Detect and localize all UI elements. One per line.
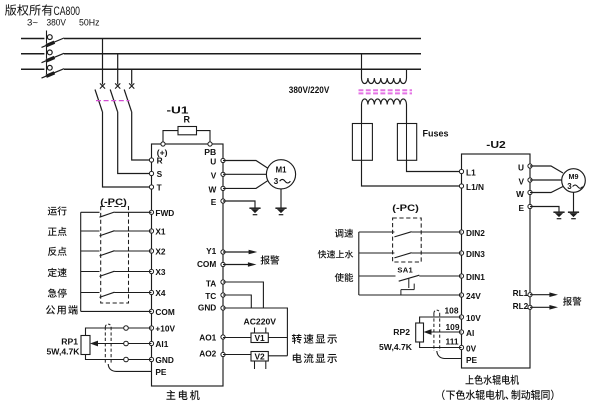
switch X2 (反点)	[81, 251, 152, 256]
terminal Y1 (U1 right)	[206, 246, 225, 256]
label 快速上水	[318, 250, 354, 258]
svg-text:U: U	[210, 157, 216, 167]
svg-text:Y1: Y1	[206, 246, 217, 256]
wire AI1 wiper	[97, 343, 152, 345]
transformer isolation (magenta)	[359, 90, 413, 93]
svg-text:10V: 10V	[466, 313, 481, 323]
terminal FWD (U1 left)	[149, 208, 174, 218]
terminal 24V (U2 left)	[459, 291, 481, 301]
svg-text:5W,4.7K: 5W,4.7K	[379, 342, 413, 352]
svg-text:S: S	[157, 169, 163, 179]
switch DIN2 (调速)	[359, 232, 462, 237]
svg-text:PE: PE	[466, 355, 478, 365]
terminal X4 (U1 left)	[149, 288, 166, 298]
svg-text:380V/220V: 380V/220V	[289, 85, 330, 95]
terminal U (U2 right)	[518, 162, 532, 172]
wire TA	[223, 282, 263, 308]
svg-text:DIN3: DIN3	[466, 249, 485, 259]
terminal 10V (U2 left)	[459, 313, 481, 323]
svg-text:X3: X3	[155, 267, 166, 277]
svg-text:T: T	[157, 183, 162, 193]
switch X4 (急停)	[81, 292, 152, 297]
junction circle GND	[124, 357, 129, 362]
wire U1-U to M1	[223, 161, 268, 169]
wire 24V	[359, 294, 462, 296]
wire (+) to resistor R	[163, 131, 178, 144]
terminal 0V (U2 left)	[459, 344, 476, 354]
svg-text:COM: COM	[197, 259, 216, 269]
cable shield (RP1)	[105, 324, 111, 364]
terminal E (U2 right)	[518, 203, 532, 213]
label 运行	[48, 206, 67, 215]
svg-text:DIN1: DIN1	[466, 272, 485, 282]
meter V1	[251, 333, 268, 343]
wire M1 to ground	[280, 189, 282, 208]
terminal E (U1 right)	[211, 197, 225, 207]
junction circle AI1	[124, 341, 129, 346]
switch X3 (定速)	[81, 271, 152, 276]
potentiometer RP2	[379, 323, 423, 352]
wire FU2 to L1	[407, 160, 462, 171]
cable shield (RP2)	[434, 310, 440, 351]
resistor R	[178, 115, 197, 135]
wire V2 to supply	[268, 355, 287, 357]
svg-text:L1: L1	[466, 168, 476, 178]
svg-text:E: E	[518, 203, 524, 213]
terminal COM (U1 left)	[149, 307, 174, 317]
terminal DIN3 (U2 left)	[459, 249, 485, 259]
terminal TC (U1 right)	[205, 291, 225, 301]
label 报警 (U1)	[261, 255, 280, 264]
svg-text:(-PC): (-PC)	[100, 197, 127, 207]
svg-text:3: 3	[567, 182, 572, 191]
svg-text:SA1: SA1	[397, 266, 413, 275]
svg-text:3~: 3~	[27, 18, 38, 28]
svg-text:W: W	[208, 185, 216, 195]
label 电流显示	[293, 353, 337, 363]
terminal R (U1 left)	[149, 156, 162, 166]
terminal AO1 (U1 right)	[199, 333, 225, 343]
svg-text:R: R	[157, 156, 163, 166]
svg-text:AO1: AO1	[199, 333, 216, 343]
title 版权所有	[5, 4, 53, 15]
label 反点	[48, 247, 67, 256]
svg-text:TA: TA	[206, 278, 216, 288]
terminal V (U2 right)	[518, 176, 532, 186]
alarm arrow RL1	[530, 292, 558, 297]
motor M9	[562, 169, 586, 193]
terminal W (U1 right)	[208, 185, 225, 195]
terminal (+)	[157, 142, 168, 158]
terminal L1 (U2 left)	[459, 168, 476, 178]
wire COM (公用端)	[81, 310, 152, 312]
junction circle +10V	[124, 326, 129, 331]
terminal +10V (U1 left)	[149, 324, 175, 334]
svg-text:-U2: -U2	[486, 140, 506, 151]
svg-text:24V: 24V	[466, 291, 481, 301]
ground (M9)	[568, 212, 579, 219]
wire U2-U to M9	[530, 166, 563, 173]
terminal S (U1 left)	[149, 169, 162, 179]
wire U1-V to M1	[223, 173, 267, 175]
label 定速	[48, 268, 67, 277]
label 主电机	[166, 390, 199, 400]
svg-text:111: 111	[446, 337, 459, 347]
wire U1-W to M1	[223, 181, 268, 189]
ground (M1)	[275, 208, 286, 215]
wire common bus (left -PC)	[80, 212, 82, 311]
svg-text:RP1: RP1	[61, 337, 78, 347]
wire AO2 to V2	[223, 354, 251, 356]
switch DIN3 (快速上水)	[359, 253, 462, 258]
terminal L1/N (U2 left)	[459, 182, 484, 192]
wire KM pole1 to T	[103, 112, 152, 188]
wire GND to meters	[223, 308, 287, 356]
svg-text:GND: GND	[198, 303, 216, 313]
terminal RL1 (U2 right)	[513, 288, 532, 298]
terminal DIN2 (U2 left)	[459, 228, 485, 238]
wire common bus (right -PC)	[358, 232, 360, 295]
svg-text:PE: PE	[155, 367, 167, 377]
inverter U2 box	[462, 154, 531, 368]
svg-text:X4: X4	[155, 288, 166, 298]
svg-text:COM: COM	[155, 307, 174, 317]
terminal U (U1 right)	[210, 157, 225, 167]
label 正点	[48, 227, 67, 236]
transformer T1 primary	[362, 54, 407, 84]
svg-text:DIN2: DIN2	[466, 228, 485, 238]
terminal DIN1 (U2 left)	[459, 272, 485, 282]
terminal X1 (U1 left)	[149, 227, 166, 237]
wire AO1 to V1	[223, 337, 251, 339]
svg-text:U: U	[518, 162, 524, 172]
ground (U1 E)	[249, 208, 260, 215]
meter V1 supply stubs	[254, 328, 256, 334]
wire KM pole3 to R	[132, 112, 152, 161]
svg-text:FWD: FWD	[155, 208, 174, 218]
terminal PB	[204, 142, 216, 157]
fuse FU1	[352, 124, 372, 161]
terminal AI1 (U1 left)	[149, 339, 168, 349]
terminal AI (U2 left)	[459, 328, 474, 338]
svg-text:V2: V2	[254, 352, 265, 362]
svg-text:108: 108	[445, 306, 459, 316]
contactor KM mechanical link	[96, 100, 130, 102]
wire U1-E to ground	[223, 201, 255, 208]
wire TC	[223, 295, 251, 308]
svg-text:3: 3	[274, 176, 279, 186]
svg-text:X1: X1	[155, 227, 166, 237]
label 报警 (U2)	[563, 297, 581, 306]
terminal X3 (U1 left)	[149, 267, 166, 277]
contactor KM pole 2	[110, 54, 120, 112]
alarm arrow Y1	[223, 250, 257, 255]
terminal GND (U1 left)	[149, 355, 173, 365]
wire 10V to RP2 top	[420, 317, 462, 323]
svg-text:CA800: CA800	[54, 4, 81, 18]
svg-text:V: V	[518, 176, 524, 186]
wire U2-E to ground	[530, 207, 559, 212]
alarm arrow COM	[223, 262, 257, 267]
svg-text:+10V: +10V	[155, 324, 175, 334]
breaker QF pole 2 (L2)	[21, 46, 421, 63]
svg-text:AO2: AO2	[199, 349, 216, 359]
switch X1 (正点)	[81, 231, 152, 236]
label （下色水辊电机、制动辊同）	[442, 390, 553, 400]
svg-text:380V: 380V	[47, 18, 67, 28]
terminal RL2 (U2 right)	[513, 301, 532, 311]
svg-text:V: V	[211, 170, 217, 180]
switch FWD (运行)	[81, 212, 152, 217]
PLC interface box -PC (right, dashed)	[393, 218, 422, 262]
wire KM pole2 to S	[118, 112, 152, 174]
contactor KM pole 3	[124, 69, 134, 111]
wire U2-W to M9	[530, 187, 563, 193]
svg-text:Fuses: Fuses	[423, 129, 449, 139]
svg-text:R: R	[184, 115, 191, 125]
svg-text:AI1: AI1	[155, 339, 168, 349]
wire +10V to RP1 top	[86, 328, 152, 336]
meter V2	[251, 352, 268, 362]
label 使能	[335, 273, 354, 282]
svg-text:(-PC): (-PC)	[392, 203, 419, 213]
wire PE to shield	[108, 364, 151, 371]
wire PE to shield (U2)	[437, 351, 462, 359]
label 调速	[335, 229, 353, 238]
PLC interface box -PC (left, dashed)	[101, 207, 129, 304]
svg-text:V1: V1	[254, 333, 265, 343]
svg-text:GND: GND	[155, 355, 173, 365]
terminal GND (U1 right)	[198, 303, 225, 313]
terminal W (U2 right)	[516, 189, 532, 199]
svg-text:PB: PB	[204, 147, 216, 157]
fuse FU2	[397, 124, 416, 161]
svg-text:RL1: RL1	[513, 288, 529, 298]
wire FU1 to L1/N	[362, 160, 462, 186]
potentiometer RP1	[47, 336, 90, 357]
svg-text:M1: M1	[276, 165, 287, 174]
wire secondary left to fuse FU1	[361, 105, 363, 124]
motor M1	[266, 160, 295, 189]
breaker QF pole 1 (L1)	[21, 31, 421, 48]
svg-text:W: W	[516, 189, 524, 199]
svg-text:RP2: RP2	[393, 327, 410, 337]
terminal COM (U1 right)	[197, 259, 225, 269]
svg-text:X2: X2	[155, 247, 166, 257]
label 急停	[48, 289, 67, 298]
meter V2 stubs	[254, 361, 256, 369]
label 公用端	[46, 305, 78, 315]
wire M9 to ground	[573, 192, 575, 211]
svg-text:RL2: RL2	[513, 301, 529, 311]
contactor KM pole 1	[95, 39, 105, 112]
terminal V (U1 right)	[211, 170, 225, 180]
wire V1 to supply	[268, 337, 287, 339]
svg-text:TC: TC	[205, 291, 216, 301]
wire GND to RP1 bottom	[86, 355, 152, 360]
svg-text:5W,4.7K: 5W,4.7K	[47, 347, 81, 357]
svg-text:AI: AI	[466, 328, 474, 338]
label 3~ 380V 50Hz	[27, 18, 100, 28]
wire U2-V to M9	[530, 179, 562, 181]
terminal AO2 (U1 right)	[199, 349, 225, 359]
inverter U1 box	[152, 144, 224, 386]
svg-text:E: E	[211, 197, 217, 207]
terminal X2 (U1 left)	[149, 247, 166, 257]
transformer T1 secondary	[362, 99, 407, 105]
svg-text:109: 109	[446, 322, 460, 332]
terminal TA (U1 right)	[206, 278, 225, 288]
switch SA1 (使能)	[359, 266, 462, 295]
wire resistor R to PB	[197, 131, 211, 144]
alarm arrow RL2	[530, 305, 558, 310]
wire 0V to RP2 bottom	[420, 342, 462, 348]
svg-text:0V: 0V	[466, 344, 477, 354]
wire secondary right to fuse FU2	[406, 105, 408, 124]
svg-text:M9: M9	[569, 172, 579, 181]
svg-text:50Hz: 50Hz	[79, 18, 100, 28]
svg-text:L1/N: L1/N	[466, 182, 484, 192]
svg-text:AC220V: AC220V	[244, 317, 277, 327]
breaker QF pole 3 (L3)	[21, 61, 421, 78]
label 上色水辊电机	[466, 375, 520, 385]
ground (U2 E)	[553, 212, 564, 219]
wire AI wiper	[431, 331, 462, 333]
terminal T (U1 left)	[149, 183, 161, 193]
label 转速显示	[292, 334, 337, 344]
